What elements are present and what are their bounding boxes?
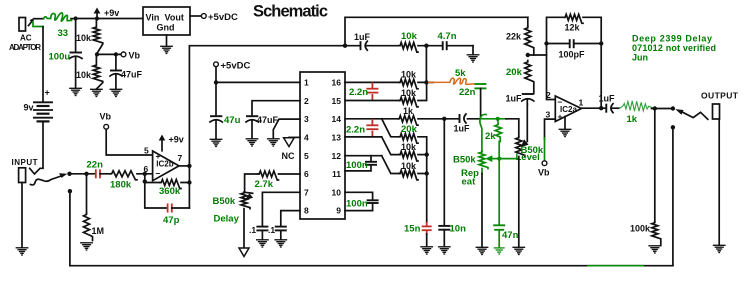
svg-text:IC2b: IC2b [156,160,173,169]
wire diagonal pin13 to 10k [382,137,399,155]
wire green elbow jack to battery [33,22,43,27]
node input bypass tap [68,189,72,193]
resistor 1k pin14 row [398,116,418,126]
capacitor 100n pins 12-11 [345,156,377,171]
svg-text:Schematic: Schematic [253,3,328,21]
capacitor .1 (pin7) [256,226,268,228]
node 1M junction [84,172,88,176]
wire 10k fan4 to column [418,173,427,175]
svg-text:12k: 12k [565,23,581,33]
capacitor 4.7n [418,41,473,50]
wire junction to IC2a rail [528,54,547,56]
wire regulator Gnd lead [166,35,168,46]
wire 1uF repeat row [444,118,480,120]
wire pin 6 to 2.7k [279,173,301,175]
wire top row y17 [345,17,528,45]
svg-text:Vb: Vb [100,112,112,122]
resistor 5k (orange hand-drawn) [428,78,474,84]
wire 15n to ground [426,234,428,247]
wire 20k to filter column [418,137,427,222]
svg-text:100pF: 100pF [559,50,586,60]
wire +9v rail [76,18,143,20]
wire pin 4 stub [289,136,300,138]
resistor 10k fan3 [399,151,418,161]
resistor 12k [564,14,583,23]
svg-text:−: − [156,168,161,178]
switch output bypass [675,109,708,119]
ground after 4.7n [467,55,480,62]
svg-text:100n: 100n [346,199,368,210]
capacitor 1uF output [606,104,619,113]
resistor 180k [110,171,137,180]
wiper level pot from 1uF chain [521,105,529,148]
wiper repeat pot (green) [485,155,499,162]
output jack J2 [713,104,720,119]
terminal Vb (mid-left) [104,124,109,129]
svg-text:22n: 22n [459,87,476,98]
node output to 100k [653,106,657,110]
resistor 10k lower divider [93,54,103,89]
capacitor .1 (pin8) [275,226,287,228]
capacitor 1uF level chain [522,94,534,105]
svg-text:2.2n: 2.2n [349,87,368,98]
resistor 10k pin16 row [399,79,418,89]
node pin16 row junction [424,80,428,84]
svg-text:1: 1 [579,98,584,108]
wire 10k pin15 up to pin16 node [418,82,427,100]
potentiometer B50k Level [516,137,525,157]
svg-text:13: 13 [332,133,342,143]
node 360k left [143,179,147,183]
svg-text:9: 9 [336,206,341,216]
terminal Vb (IC2a) [542,161,547,166]
svg-text:16: 16 [332,78,342,88]
capacitor 47n (green) [493,225,505,247]
svg-text:10k: 10k [76,70,92,80]
svg-text:10k: 10k [401,31,418,42]
svg-text:Vb: Vb [129,51,141,61]
node bypass switch throw [671,106,675,110]
open arrow terminal (delay pot) [239,248,249,257]
node 100pF left [544,41,548,45]
svg-text:3: 3 [304,114,309,124]
svg-text:071012 not verified: 071012 not verified [632,43,716,53]
svg-text:10: 10 [332,187,342,197]
ground pin8 cap [274,240,287,247]
node output/feedback [599,106,603,110]
svg-text:3: 3 [546,110,551,120]
wire repeat pot bottom to ground [481,169,483,175]
svg-text:eat: eat [462,177,477,188]
wire pin 13 row [345,136,382,138]
svg-text:47p: 47p [163,215,180,226]
svg-text:15: 15 [332,96,342,106]
svg-text:33: 33 [58,28,69,39]
wire diagonal pin14 to 20k [382,119,399,137]
wire feedback rail down to 47p row [188,166,190,208]
battery B1 9v [33,102,53,121]
ground pin 3 [267,139,280,146]
svg-text:15n: 15n [404,224,421,235]
ground pin7 cap [256,240,269,247]
node column fan3 [425,152,429,156]
wire pin 12 row [345,155,382,157]
wire battery positive lead [42,27,44,102]
svg-text:5k: 5k [455,68,466,79]
svg-text:Vin: Vin [146,13,160,23]
resistor 10k upper divider [93,19,103,55]
wiper delay pot [245,192,254,200]
wire delay pot bottom lead [243,209,245,248]
+9v arrow top [94,8,101,19]
wire green overdraw on rail [588,265,643,267]
wire green column 2k to 47n [498,142,500,225]
svg-text:Jun: Jun [632,53,648,63]
svg-text:1uF: 1uF [454,124,471,134]
svg-text:12: 12 [332,151,342,161]
svg-text:10k: 10k [401,161,417,171]
wire pin 8 to 0.1 cap [281,211,300,226]
svg-text:20k: 20k [401,124,418,135]
potentiometer B50k Delay [241,192,250,209]
resistor 2.7k [258,171,278,180]
node column fan4 [425,171,429,175]
svg-text:+5vDC: +5vDC [221,60,251,71]
wire bypass feed down to rail [672,127,674,265]
svg-text:Gnd: Gnd [157,23,175,33]
svg-text:7: 7 [178,153,183,163]
wire diagonal pin12 to 10k [382,156,399,174]
resistor 1k output (green hand-drawn) [619,101,656,111]
wire pin 14 row (1k row) [345,118,398,120]
wire input jack sleeve to ground [21,183,23,248]
wire bottom bypass rail [70,265,673,267]
ground under regulator [160,46,173,53]
wire pin 15 row [345,100,399,102]
svg-text:1k: 1k [627,114,638,125]
ground under level pot [512,247,525,254]
wire row to level pot corner [506,119,519,137]
wire divider to Vb terminal [96,53,121,55]
regulator U2 box Vin/Vout/Gnd [143,7,190,35]
node green 2k junction [496,117,500,121]
svg-text:2: 2 [546,90,551,100]
resistor 360k [160,180,181,189]
resistor 20k level chain [525,61,534,94]
svg-text:22k: 22k [506,32,522,42]
node input signal [67,172,71,176]
svg-text:100u: 100u [49,52,71,63]
svg-text:+5vDC: +5vDC [208,12,238,23]
node pin1 supply junction [214,80,218,84]
svg-text:100n: 100n [346,160,368,171]
IC U1 PT2399 box [300,72,345,219]
node 4.7n junction [424,44,428,48]
op-amp IC2a [555,96,581,122]
node 9v rail junction at 100u [74,16,78,20]
ground under 47n (green) [494,248,505,254]
node 100pF right [599,41,603,45]
wire green row to level pot [483,118,507,120]
svg-text:Delay: Delay [214,214,240,225]
wire output jack sleeve [718,119,720,245]
svg-text:8: 8 [304,206,309,216]
ground under 10n [438,247,451,254]
terminal +5vDC (regulator) [201,14,206,19]
svg-text:10k: 10k [401,88,417,98]
svg-text:2.2n: 2.2n [346,125,365,136]
wire 10k to node [418,81,433,83]
svg-text:+9v: +9v [104,8,119,18]
node top row at feedback rail [343,44,347,48]
wire pin 16 row [345,81,399,83]
wire Vb terminal to IC2b pin5 [106,129,152,155]
wire 1k to 1uF node [418,118,444,120]
ground under 100u [69,88,82,95]
svg-text:14: 14 [332,114,342,124]
resistor 33 (green hand-drawn) [35,13,76,21]
svg-text:180k: 180k [110,180,132,191]
wire node down to pin16 row [425,46,427,83]
resistor 1M [86,174,88,213]
capacitor 22n (green) after 5k [474,84,486,88]
wire feedback rail (IC2b out up to top row) [189,46,345,166]
ground under 47uF pin2 [246,139,259,146]
capacitor 100pF [570,39,574,48]
svg-text:20k: 20k [506,67,523,78]
wire 360k row leads [145,182,190,184]
svg-text:1uF: 1uF [354,32,371,42]
ground output jack [713,245,726,252]
svg-text:22n: 22n [87,160,104,171]
svg-text:OUTPUT: OUTPUT [701,91,739,101]
capacitor C 100u [70,19,83,89]
wire 4.7n to ground [472,46,474,55]
svg-text:10n: 10n [450,224,467,235]
wire pin3 to Vb terminal [545,119,556,139]
wire pin6 node down to 47p row [145,174,166,208]
ground under 100k [648,246,661,253]
node repeat wiper to column [497,157,501,161]
svg-text:ADAPTOR: ADAPTOR [9,43,41,52]
capacitor 15n (red) [422,222,432,235]
ground under 47u [210,139,223,146]
svg-text:2k: 2k [485,131,496,142]
wire green hook to repeat pot [480,114,486,151]
ground IC2a [564,117,566,130]
node 360k right [187,180,191,184]
wire battery negative to input jack ring [30,121,43,174]
AC adaptor jack J3 [19,18,35,32]
ground under lower 10k [90,89,103,96]
capacitor 1uF (top row) [345,41,399,50]
node IC2b inverting input [143,172,147,176]
svg-text:B50k: B50k [453,155,476,166]
svg-text:47n: 47n [502,230,519,241]
svg-text:1M: 1M [92,226,105,236]
switch input jack tip (bypass arm) [31,173,68,185]
svg-text:47uF: 47uF [257,115,279,125]
+9v arrow IC2b [159,135,166,151]
svg-text:6: 6 [144,164,149,174]
svg-text:2: 2 [304,96,309,106]
svg-text:10k: 10k [401,142,417,152]
node bypass feed [671,125,675,129]
svg-text:Vb: Vb [538,168,550,178]
node 9v rail junction at divider [95,16,99,20]
resistor 10k fan4 [399,170,418,180]
resistor 22k [525,26,534,55]
ground under 47uF [110,89,123,96]
capacitor 2.2n pins 16-15 (red) [366,82,378,100]
ground under 1M [80,243,93,250]
svg-text:1: 1 [304,78,309,88]
resistor 100k [654,109,656,222]
svg-text:4.7n: 4.7n [438,31,457,42]
ground under 15n [420,247,433,254]
resistor 20k fan [399,134,418,144]
svg-text:100k: 100k [630,224,651,234]
wire 22n down to repeat row [480,88,482,117]
svg-text:NC: NC [282,151,295,161]
resistor 2k (green) [495,119,502,142]
wire IC2a feedback loop [547,17,602,108]
capacitor 10n [438,226,450,247]
wire pin 7 to 0.1 cap [262,192,300,226]
svg-text:10k: 10k [76,33,92,43]
wire +5vDC to pin 1 [216,67,300,83]
potentiometer B50k Repeat (green) [479,151,488,169]
capacitor 22n input (red) [95,169,97,178]
capacitor C 47uF (Vb) [110,54,122,89]
wire IC2b output [179,165,189,167]
ground under repeat pot [476,247,489,254]
node 47uF top junction [114,52,118,56]
svg-text:5: 5 [144,146,149,156]
node 22k-20k junction [526,53,530,57]
wire 2.7k to delay pot [245,174,258,192]
svg-text:1uF: 1uF [599,94,616,104]
svg-text:IC2a: IC2a [560,105,577,114]
svg-text:4: 4 [304,133,309,143]
node Vb divider junction [95,52,99,56]
IC pin numbers right column [332,78,342,216]
svg-text:6: 6 [304,169,309,179]
svg-text:.1: .1 [268,225,275,235]
svg-text:INPUT: INPUT [12,158,38,167]
wire green wiper row to level pot bottom [499,158,519,160]
capacitor 47p (red) [167,204,169,213]
resistor 10k top [399,43,418,53]
svg-text:2.7k: 2.7k [255,179,274,190]
wire input node to 22n [70,173,95,175]
wire 100pF row [547,43,602,45]
svg-text:Vout: Vout [165,13,184,23]
wire 47p to output rail [172,207,190,209]
node 1uF junction [442,117,446,121]
wire IC2a output row [581,107,605,109]
wire bypass tap down to bottom rail [69,191,71,266]
input jack J1 [19,168,26,183]
wire 10k fan3 to column [418,154,427,156]
wire level pot bottom to ground [518,157,520,248]
svg-text:+9v: +9v [169,135,184,145]
wire output node pair [652,108,673,110]
svg-text:Deep 2399 Delay: Deep 2399 Delay [632,34,712,44]
svg-text:AC: AC [20,34,32,43]
wire 22n to 180k [100,173,110,175]
svg-text:47uF: 47uF [121,70,143,80]
svg-text:11: 11 [332,169,341,179]
capacitor 47u [210,82,222,139]
svg-text:360k: 360k [159,186,181,197]
resistor 10k pin15 row [399,97,418,107]
NC open triangle pin 4 [284,138,295,147]
svg-text:1k: 1k [403,106,414,116]
capacitor 2.2n pins 14-13 (red) [366,119,378,137]
wire 22k top lead [527,17,529,26]
op-amp IC2b [153,151,179,181]
svg-text:1uF: 1uF [506,94,523,104]
terminal +5vDC (IC supply) [214,62,219,67]
svg-text:B50k: B50k [213,196,236,207]
ground input jack [16,248,29,255]
wire 10n column [443,119,445,226]
svg-text:9v: 9v [24,103,34,113]
svg-text:7: 7 [304,187,309,197]
svg-text:10k: 10k [401,70,417,80]
wire 180k to IC2b pin6 [137,173,153,175]
wire Vout to +5vDC terminal [190,15,201,17]
svg-text:+: + [45,88,50,98]
wire pin 3 to ground [273,119,300,138]
capacitor 1uF (repeat row) [460,114,467,123]
capacitor 100n pins 10-9 [345,192,379,210]
svg-text:.1: .1 [249,225,256,235]
capacitor 47uF (pin2) [246,101,300,139]
svg-text:47u: 47u [224,115,241,126]
terminal Vb (top) [121,52,126,57]
node IC2b output [187,164,191,168]
IC pin numbers left column [304,78,309,216]
svg-text:5: 5 [304,151,309,161]
